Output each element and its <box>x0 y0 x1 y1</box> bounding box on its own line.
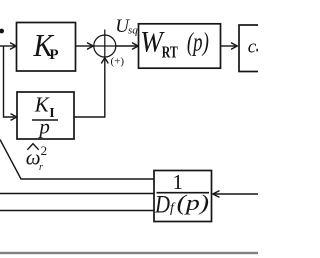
svg-text:D: D <box>154 192 170 219</box>
svg-text:p: p <box>37 114 50 138</box>
svg-text:c: c <box>248 36 257 57</box>
wire input from right into 1/D_f <box>213 191 258 198</box>
feedback wire bottom <box>0 210 154 212</box>
svg-text:(p): (p) <box>177 190 210 215</box>
svg-text:P: P <box>49 47 58 63</box>
label fragment cut off at right edge <box>256 49 258 52</box>
feedback wire middle <box>0 193 154 195</box>
block W_RT <box>139 24 221 68</box>
block K_I/p <box>17 92 74 139</box>
fraction bar 1/D_f <box>157 192 210 194</box>
wire K_I/p output up into summer (+) <box>74 58 108 118</box>
summing junction <box>94 30 116 58</box>
svg-text:2: 2 <box>41 143 48 158</box>
svg-text:sq: sq <box>128 25 138 37</box>
block 1/D_f <box>154 171 212 222</box>
svg-text:K: K <box>34 93 50 117</box>
block c (cut off at right edge) <box>239 25 263 72</box>
svg-text:I: I <box>49 106 54 121</box>
fraction bar K_I/p <box>32 119 58 121</box>
wire junction down to K_I/p input <box>4 46 17 120</box>
svg-text:RT: RT <box>162 42 178 61</box>
svg-text:(p): (p) <box>187 27 209 56</box>
wire W_RT to c block <box>221 43 238 50</box>
svg-text:r: r <box>39 162 43 173</box>
wire summer to W_RT <box>116 43 138 50</box>
separator grey line <box>0 252 258 254</box>
wire K_P to summer <box>76 43 94 50</box>
svg-text:(+): (+) <box>111 56 125 68</box>
input node dot <box>0 29 4 34</box>
feedback wire with diagonal into 1/D_f top input <box>0 140 154 180</box>
wire reference input to K_P <box>0 43 16 50</box>
block K_P <box>17 23 76 72</box>
label omega hat r squared <box>26 143 47 173</box>
